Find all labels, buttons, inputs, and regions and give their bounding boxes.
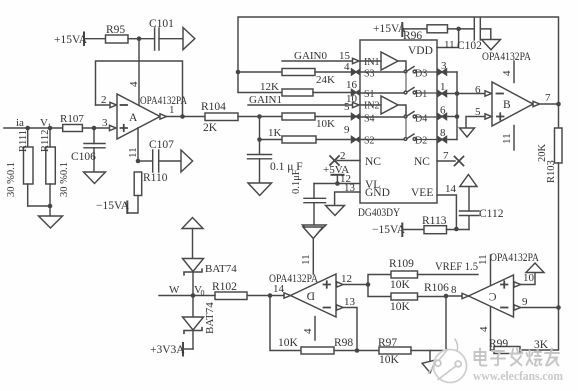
resistor R104 [201,101,282,134]
switch S4-D4 [360,112,437,125]
svg-text:30 %0.1: 30 %0.1 [6,162,17,197]
wire bus to op-amp B pin 6 [457,84,492,96]
wire feedback loop op-amp A [96,61,183,117]
svg-text:D3: D3 [415,69,427,80]
svg-text:VREF 1.5: VREF 1.5 [435,261,478,273]
node +15VA rail junction [137,36,154,41]
svg-text:S1: S1 [364,89,375,100]
resistor 12K [238,79,358,96]
pin 11 wire op-amp A [127,128,140,164]
pin 4 stub op-amp B [501,61,514,83]
pin 9 wire op-amp C [514,296,561,310]
svg-text:ia: ia [16,117,24,129]
svg-text:OPA4132PA: OPA4132PA [490,252,540,264]
svg-text:10K: 10K [390,279,411,291]
svg-text:S3: S3 [364,69,375,80]
pin 13 wire op-amp D [337,296,358,351]
svg-text:13: 13 [344,296,356,308]
svg-text:D4: D4 [415,114,427,125]
pin 13 wire [335,192,360,206]
pin 3 wire op-amp A [92,117,116,131]
wire feedback D down [270,296,301,351]
pin 6 D4 bowtie and wire [438,105,460,120]
resistor R102 [193,281,247,300]
ground below R111/R112 [39,216,63,228]
svg-text:−15VA: −15VA [96,200,130,212]
svg-text:www.elecfans.com: www.elecfans.com [473,368,563,383]
svg-text:20K: 20K [537,144,548,163]
capacitor C106 [71,128,105,172]
pin 11 stub op-amp B [501,126,514,151]
capacitor C112 [460,187,504,230]
svg-text:12: 12 [341,273,352,285]
svg-text:C102: C102 [457,40,482,52]
svg-text:NC: NC [414,156,430,168]
svg-text:30 %0.1: 30 %0.1 [59,162,70,197]
op-amp U1C OPA4132PA [469,252,540,317]
resistor 1K (to S2) [260,124,353,143]
svg-text:3: 3 [102,117,108,129]
resistor R112 [40,128,55,206]
svg-text:R99: R99 [489,338,508,350]
svg-text:C112: C112 [479,208,504,220]
capacitor C101 [149,18,183,50]
svg-text:11: 11 [300,254,312,265]
svg-text:14: 14 [273,283,285,295]
output pin 14 op-amp D [247,283,291,298]
svg-text:11: 11 [477,254,489,265]
svg-text:9: 9 [522,296,528,308]
svg-text:0: 0 [201,289,205,298]
resistor R96 [403,25,474,42]
pin 10 arrow [353,102,360,107]
switch S2-D2 [360,112,437,147]
pin VEE label [411,183,457,199]
pin 2 NC wire with X [330,150,360,165]
svg-text:1: 1 [169,104,175,116]
capacitor 0.1uF (at 1K node) [248,140,303,184]
svg-text:GAIN1: GAIN1 [249,94,282,106]
wire GAIN1 net [248,93,358,106]
resistor R111 [18,128,33,206]
svg-text:−15VA: −15VA [372,224,406,236]
wire R104 node down [257,117,262,142]
pin 14 VEE wire [437,195,459,231]
svg-text:S2: S2 [364,136,375,147]
ground (up-pointing) clamp top [182,218,203,259]
svg-text:2K: 2K [203,122,218,134]
capacitor C102 [457,18,491,52]
svg-text:BAT74: BAT74 [204,302,216,334]
pin 5 bowtie [352,114,361,120]
svg-text:4: 4 [501,70,513,76]
svg-text:R107: R107 [60,113,84,125]
power port -15VA (right) [372,224,424,237]
ground at pin 13 [326,206,345,216]
svg-text:R112: R112 [40,130,51,152]
capacitor 0.1uF (VL decoupling) [291,169,326,225]
ground (up-pointing) above C112 [460,175,477,187]
ground below 0.1uF [248,183,272,196]
pin 4 label op-amp A [128,81,140,87]
svg-text:IN1: IN1 [364,57,380,68]
switch S1-D1 [360,67,437,100]
svg-text:C101: C101 [149,18,174,30]
buffer IN2 [360,96,406,114]
diode D2 BAT74 [183,296,217,350]
pin 5 wire and ground [460,106,492,137]
svg-text:R98: R98 [334,337,353,349]
svg-text:2: 2 [340,150,346,162]
svg-text:A: A [129,112,138,124]
svg-text:D: D [307,291,315,303]
ground below C102 [482,40,501,50]
buffer IN1 [360,52,406,70]
resistor R97 [378,337,446,366]
svg-text:4: 4 [302,328,314,334]
ground above op-amp D [303,227,323,274]
capacitor C107 [138,139,181,172]
svg-text:R103: R103 [546,160,557,183]
pin 1 D1 bowtie and wire [438,81,460,97]
pin 4 bowtie [344,61,361,75]
pin 12 wire op-amp D [337,273,371,287]
wire D-pin bus [456,72,458,140]
ground (right-pointing) at C101 [183,28,195,50]
svg-text:R97: R97 [378,337,397,349]
resistor 10K (to S4) [282,101,352,130]
pin NC right label [414,156,430,168]
svg-text:C: C [489,292,497,304]
value 30 %0.1 (R111) [6,162,17,197]
pin 11 VDD wire [437,29,459,51]
svg-text:DG403DY: DG403DY [358,207,401,219]
node 24K tap [236,70,282,75]
svg-text:7: 7 [545,92,551,104]
output pin 1 op-amp A [160,104,205,119]
svg-text:D1: D1 [415,89,427,100]
svg-text:NC: NC [365,156,381,168]
wire GAIN0 net [282,50,352,62]
svg-text:C107: C107 [149,139,174,151]
svg-text:8: 8 [451,284,457,296]
svg-text:24K: 24K [316,74,335,86]
svg-text:R109: R109 [389,258,414,270]
svg-text:OPA4132PA: OPA4132PA [482,51,532,63]
net label VREF 1.5 [435,261,478,273]
svg-text:W: W [169,284,180,296]
resistor R107 [60,113,110,132]
svg-text:10: 10 [523,272,535,284]
svg-text:R106: R106 [424,282,449,294]
pin 16 bowtie [352,90,361,96]
pin 2 wire op-amp A [96,94,117,108]
svg-text:+3V3A: +3V3A [150,344,185,356]
resistor R98 [301,337,379,354]
svg-text:11: 11 [444,39,455,51]
svg-text:R104: R104 [201,101,226,113]
pin 4 stub op-amp D [302,317,315,341]
svg-text:IN2: IN2 [364,101,380,112]
IC U2 DG403DY body [358,40,437,219]
pin VL label [340,173,380,191]
svg-text:OPA4132PA: OPA4132PA [140,95,188,107]
pin 4 line op-amp C [478,307,491,351]
node W / Vo [159,284,205,298]
pin 7 NC wire with X [437,150,464,166]
ground below C106 [84,172,106,184]
resistor R113 [422,215,469,234]
output pin 8 op-amp C [444,284,469,299]
svg-text:7: 7 [443,150,449,162]
svg-text:R111: R111 [18,130,29,152]
svg-text:6: 6 [475,84,481,96]
ground below R97 wire [422,351,439,375]
svg-text:14: 14 [445,183,457,195]
pin 10 wire op-amp C [514,272,535,287]
op-amp U1B OPA4132PA [482,51,533,126]
pin NC left label [365,156,381,168]
svg-text:R96: R96 [403,30,422,42]
svg-text:10K: 10K [278,337,299,349]
svg-text:R113: R113 [422,215,447,227]
svg-text:S4: S4 [364,114,375,125]
svg-text:B: B [503,99,511,111]
pin GND label [344,182,390,199]
svg-text:C106: C106 [71,151,96,163]
pin 11 label op-amp D [300,254,312,265]
output pin 7 op-amp B [533,92,561,107]
svg-text:10K: 10K [390,301,411,313]
pin 12 wire [314,181,360,186]
svg-text:2: 2 [101,94,107,106]
wire output C down to R97 [445,296,447,351]
watermark text 电子发烧友 [475,349,560,366]
svg-text:+15VA: +15VA [54,34,88,46]
ground (up-pointing) at pin 10 [526,263,544,273]
resistor R99 [489,308,559,354]
svg-text:R95: R95 [106,24,125,36]
svg-text:11: 11 [501,133,513,144]
resistor R109 [368,258,478,291]
svg-text:VEE: VEE [411,187,433,199]
svg-text:BAT74: BAT74 [205,263,237,275]
value 30 %0.1 (R112) [59,162,70,197]
node V1 [40,117,52,131]
resistor R103 [537,104,562,308]
svg-text:VDD: VDD [408,45,433,57]
wire R111/R112 common [28,204,53,216]
svg-text:12K: 12K [260,81,279,93]
svg-text:9: 9 [344,124,350,136]
input wire ia [4,117,63,130]
svg-text:0.1μF: 0.1μF [291,169,302,194]
svg-text:4: 4 [478,326,490,332]
svg-text:R110: R110 [143,172,168,184]
svg-text:D2: D2 [415,136,427,147]
wire +15VA to op-amp A pin 4 [138,39,140,105]
pin 15 arrow [353,58,360,63]
pin 9 bowtie [352,137,361,143]
svg-text:11: 11 [127,147,139,158]
resistor 24K [282,69,352,87]
ground below 0.1uF (VL) [303,225,327,237]
svg-text:GAIN0: GAIN0 [294,50,327,62]
svg-text:4: 4 [128,81,140,87]
wire top feedback rail [238,17,559,104]
watermark logo circle [428,339,467,383]
diode D1 BAT74 [183,259,238,296]
op-amp U1A OPA4132PA [117,94,188,139]
pin 11 line op-amp C [477,254,491,285]
resistor R106 [368,282,449,313]
svg-text:5: 5 [344,101,350,113]
svg-text:10K: 10K [379,354,400,366]
pin VDD label [408,45,433,57]
svg-text:3K: 3K [534,339,549,351]
power port +5VA [323,164,349,184]
svg-text:4: 4 [344,61,350,73]
power port -15VA (left) [96,200,130,213]
pin 8 D2 bowtie and wire [438,127,458,143]
pin 3 D3 bowtie and wire [438,60,458,75]
power port +15VA (left) [54,33,106,47]
power port +3V3A [150,343,193,356]
resistor R95 [106,24,140,43]
resistor R110 [127,172,167,213]
svg-text:10K: 10K [316,118,335,130]
power port +15VA (right) [373,23,427,36]
op-amp U1D OPA4132PA [269,273,336,317]
svg-text:R102: R102 [212,281,237,293]
switch S3-D3 [360,67,437,80]
svg-text:1K: 1K [268,127,282,139]
svg-text:GND: GND [365,187,390,199]
ground (right-pointing) at C107 [181,150,193,172]
